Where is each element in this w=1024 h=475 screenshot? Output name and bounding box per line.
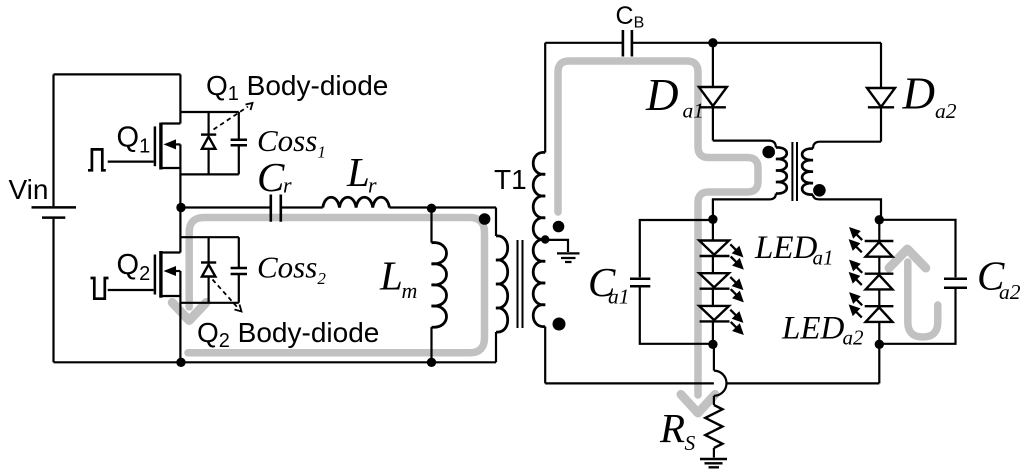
node A (half-bridge midpoint) <box>176 203 185 212</box>
svg-text:C: C <box>257 154 285 200</box>
svg-text:S: S <box>685 431 696 455</box>
ground (RS) <box>700 459 727 467</box>
battery Vin <box>32 207 77 217</box>
ground (center tap) <box>557 253 580 262</box>
body diode of Q1 <box>201 135 216 149</box>
svg-text:D: D <box>902 69 936 119</box>
capacitor Coss2 <box>231 237 247 303</box>
svg-text:a1: a1 <box>813 246 834 270</box>
primary phase dot <box>479 213 491 225</box>
balance transformer right winding <box>802 142 881 220</box>
balance transformer core <box>792 142 797 201</box>
wire top rail <box>54 73 181 75</box>
svg-text:T1: T1 <box>494 164 527 195</box>
svg-text:Vin: Vin <box>9 174 49 205</box>
inductor Lr <box>323 197 390 207</box>
gate pulse symbol Q2 (inverted) <box>91 278 109 299</box>
node top rail / Da1 <box>708 38 717 47</box>
capacitor CB <box>623 30 632 57</box>
transformer T1 secondary winding <box>533 43 545 384</box>
transistor Q2 <box>108 208 181 363</box>
capacitor Ca1 branch <box>630 220 713 344</box>
svg-text:r: r <box>368 173 377 198</box>
Q1 body-diode / Coss1 parallel box <box>180 112 238 174</box>
center tap wire to ground <box>545 240 568 252</box>
svg-text:Coss2: Coss2 <box>257 250 326 289</box>
wire Cr to Lr <box>281 206 323 208</box>
svg-text:Q2 Body-diode: Q2 Body-diode <box>197 317 379 352</box>
svg-text:r: r <box>283 173 292 198</box>
secondary phase dot bottom <box>553 318 566 331</box>
LED string LEDa2 <box>865 220 894 344</box>
svg-text:a1: a1 <box>608 285 630 309</box>
svg-text:Q1 Body-diode: Q1 Body-diode <box>206 70 388 105</box>
wire bottom rail <box>54 361 497 363</box>
gray resonant current loop (primary side) <box>172 218 484 353</box>
node Da1/Ca1/LEDa1 <box>708 215 717 224</box>
dashed arrow to Q2 body-diode label <box>213 280 242 312</box>
svg-text:a1: a1 <box>683 99 705 123</box>
bottom output rail right segment <box>727 344 880 383</box>
node LEDa2 bottom <box>875 340 884 349</box>
svg-text:L: L <box>346 149 370 195</box>
node LEDa1 bottom <box>708 340 717 349</box>
dashed arrow to Q1 body-diode label <box>214 103 253 130</box>
svg-text:D: D <box>645 70 679 120</box>
transformer T1 primary winding <box>496 208 508 363</box>
svg-text:Q2: Q2 <box>117 249 151 285</box>
gate pulse symbol Q1 <box>88 149 106 170</box>
Q2 body-diode / Coss2 parallel box <box>180 237 238 303</box>
wire Lr to T1 primary <box>389 206 496 208</box>
gray U-turn arrow near LEDa2 <box>889 249 938 337</box>
wire top rail to CB <box>545 42 622 44</box>
wire CB to Da1 node and Da2 branch <box>632 42 881 44</box>
svg-text:L: L <box>379 253 403 299</box>
wire hop over rail <box>713 344 715 370</box>
balance transformer left phase dot <box>762 146 775 159</box>
balance transformer left winding <box>713 141 787 220</box>
resistor RS <box>705 396 722 458</box>
svg-text:m: m <box>402 278 418 303</box>
node Da2/Ca2/LEDa2 <box>875 215 884 224</box>
capacitor Cr <box>271 195 281 222</box>
diode Da1 <box>699 43 727 141</box>
center tap junction <box>541 235 549 243</box>
gray current path (secondary top: T1 to CB to Da1 to balance winding down to Rs) <box>558 61 758 413</box>
T1 core <box>518 240 523 328</box>
left rail wire <box>52 74 54 362</box>
transistor Q1 <box>108 74 181 207</box>
bottom output rail left segment <box>545 382 714 384</box>
secondary phase dot top <box>553 221 565 233</box>
capacitor Ca2 branch <box>879 220 967 344</box>
svg-text:LED: LED <box>781 311 845 347</box>
inductor Lm <box>432 208 447 362</box>
svg-text:R: R <box>659 405 685 451</box>
node dots bottom rail <box>176 358 185 367</box>
svg-text:CB: CB <box>616 2 645 32</box>
svg-text:LED: LED <box>754 230 818 266</box>
node dot Lr/Lm <box>427 204 436 213</box>
diode Da2 <box>867 43 895 142</box>
LEDa1 emission arrows <box>730 244 742 333</box>
svg-text:a2: a2 <box>999 280 1021 304</box>
svg-text:a2: a2 <box>935 99 957 123</box>
LED string LEDa1 <box>699 219 729 344</box>
svg-text:a2: a2 <box>843 326 865 350</box>
balance transformer right phase dot <box>813 184 826 197</box>
LEDa2 emission arrows <box>851 229 863 318</box>
body diode of Q2 <box>201 263 216 277</box>
svg-text:Q1: Q1 <box>117 122 151 158</box>
capacitor Coss1 <box>231 112 247 174</box>
wire midrail to Cr <box>181 206 270 208</box>
